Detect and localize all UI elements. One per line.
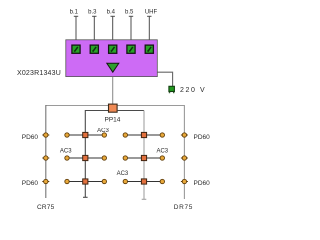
- svg-text:b.5: b.5: [125, 10, 134, 16]
- svg-text:PD60: PD60: [194, 180, 211, 187]
- svg-text:X023R1343U: X023R1343U: [17, 70, 61, 77]
- svg-text:b.4: b.4: [107, 10, 116, 16]
- svg-text:PD60: PD60: [22, 134, 39, 141]
- svg-text:b.1: b.1: [70, 10, 79, 16]
- svg-text:AC3: AC3: [60, 149, 72, 155]
- svg-text:CR75: CR75: [37, 204, 55, 211]
- svg-text:DR75: DR75: [174, 204, 193, 211]
- svg-text:220 V: 220 V: [180, 87, 206, 94]
- svg-text:PD60: PD60: [22, 180, 39, 187]
- svg-text:UHF: UHF: [145, 10, 158, 16]
- svg-text:PP14: PP14: [105, 117, 121, 124]
- svg-text:AC3: AC3: [97, 128, 109, 134]
- svg-text:PD60: PD60: [194, 134, 211, 141]
- svg-text:AC3: AC3: [156, 148, 168, 154]
- svg-text:b.3: b.3: [88, 10, 97, 16]
- svg-text:AC3: AC3: [117, 171, 129, 177]
